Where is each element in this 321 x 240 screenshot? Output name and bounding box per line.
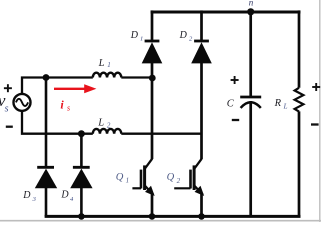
svg-text:s: s xyxy=(5,103,9,114)
svg-text:i: i xyxy=(60,98,64,112)
plus sign source xyxy=(4,84,12,92)
svg-text:2: 2 xyxy=(189,36,193,43)
svg-text:1: 1 xyxy=(140,36,143,43)
svg-text:s: s xyxy=(67,104,70,113)
svg-text:R: R xyxy=(274,98,282,109)
transistor Q1 xyxy=(132,159,153,217)
wire L1 to D1 anode xyxy=(121,76,152,78)
resistor RL xyxy=(295,88,304,112)
figure border right xyxy=(319,0,321,222)
svg-text:2: 2 xyxy=(177,177,181,185)
wire L2 node to D4 cathode xyxy=(80,134,83,167)
wire capacitor to bottom rail xyxy=(249,101,252,216)
svg-text:1: 1 xyxy=(107,61,111,69)
svg-text:L: L xyxy=(98,58,105,69)
svg-text:D: D xyxy=(179,30,188,41)
svg-text:Q: Q xyxy=(167,172,175,183)
junction dot Q2 emitter bottom xyxy=(198,213,205,220)
figure border bottom xyxy=(0,220,321,222)
minus sign capacitor xyxy=(232,119,239,121)
wire D1 column lower (to Q1 collector) xyxy=(151,63,154,159)
wire RL column upper xyxy=(298,10,301,87)
svg-text:D: D xyxy=(60,189,69,200)
diode D2 xyxy=(191,41,212,63)
svg-text:L: L xyxy=(283,102,288,110)
svg-text:n: n xyxy=(249,0,254,7)
junction dot D4 bottom xyxy=(78,213,85,220)
junction dot Q1 emitter bottom xyxy=(149,213,156,220)
wire node n column to capacitor xyxy=(249,10,252,96)
svg-text:4: 4 xyxy=(70,196,74,203)
minus sign source xyxy=(6,126,13,128)
diode D3 xyxy=(35,167,57,188)
node A junction dot xyxy=(43,74,50,81)
plus sign capacitor xyxy=(231,76,239,84)
svg-text:C: C xyxy=(227,99,235,110)
wire source plus to node A xyxy=(22,78,93,95)
wire D2 column lower (to Q2 collector) xyxy=(200,63,203,159)
wire node A to D3 cathode xyxy=(45,78,48,167)
svg-text:L: L xyxy=(97,117,104,128)
wire RL column lower xyxy=(298,111,301,216)
diode D4 xyxy=(70,167,92,188)
svg-text:Q: Q xyxy=(116,172,124,183)
transistor Q2 xyxy=(174,159,203,217)
wire D4 anode to bottom rail xyxy=(80,188,83,216)
wire D1 column upper xyxy=(151,10,154,40)
svg-text:3: 3 xyxy=(32,196,37,203)
node L2-D4 junction dot xyxy=(78,130,85,137)
svg-text:D: D xyxy=(22,190,31,201)
svg-text:D: D xyxy=(130,30,139,41)
ac source Vs xyxy=(14,94,31,111)
svg-text:1: 1 xyxy=(126,177,130,185)
node L1-D1 junction dot xyxy=(149,75,156,82)
minus sign output xyxy=(311,123,319,125)
wire source minus to L2 xyxy=(22,111,93,134)
inductor L2 xyxy=(93,129,121,134)
wire bottom rail xyxy=(45,215,301,218)
svg-text:2: 2 xyxy=(107,122,111,130)
inductor L1 xyxy=(93,73,121,78)
diode D1 xyxy=(142,41,163,63)
wire top rail xyxy=(151,11,301,14)
capacitor C xyxy=(240,97,261,108)
node n junction dot xyxy=(247,8,254,15)
current arrow is xyxy=(54,88,85,90)
plus sign output xyxy=(312,83,320,91)
wire L2 to D2 anode xyxy=(121,133,201,135)
wire D3 anode to bottom rail xyxy=(45,188,48,216)
wire D2 column upper xyxy=(200,10,203,40)
